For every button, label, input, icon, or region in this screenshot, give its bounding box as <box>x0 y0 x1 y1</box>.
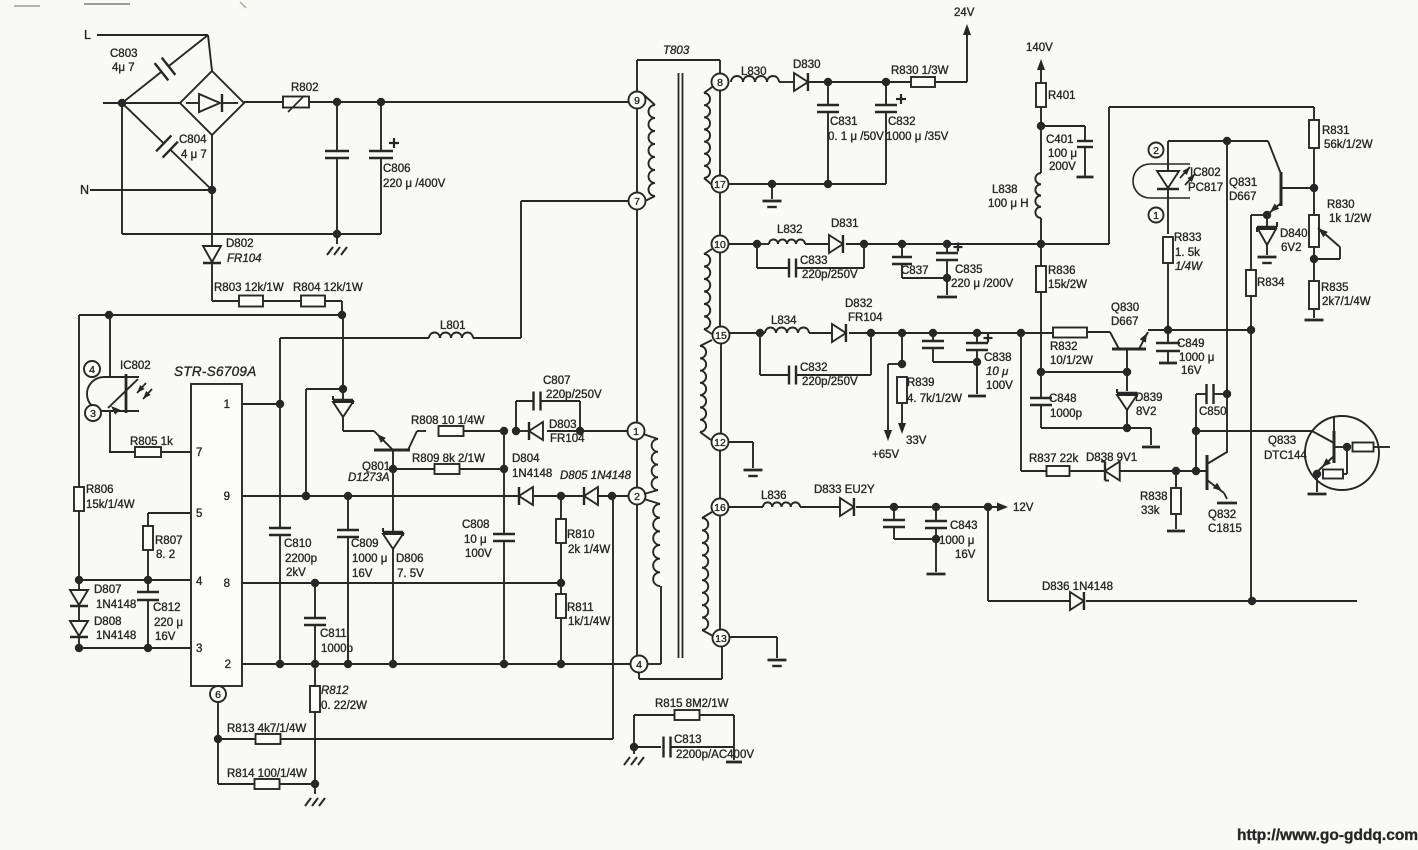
svg-text:4 μ 7: 4 μ 7 <box>181 149 207 161</box>
svg-text:15k/1/4W: 15k/1/4W <box>86 499 135 511</box>
svg-text:C832: C832 <box>888 116 916 128</box>
svg-text:3: 3 <box>196 643 202 655</box>
svg-text:220 μ /400V: 220 μ /400V <box>383 178 446 190</box>
svg-text:9: 9 <box>224 491 230 503</box>
svg-text:2: 2 <box>634 491 640 503</box>
svg-text:D832: D832 <box>845 298 873 310</box>
svg-text:C811: C811 <box>320 628 347 640</box>
svg-text:1/4W: 1/4W <box>1175 261 1203 273</box>
svg-text:R803 12k/1W: R803 12k/1W <box>214 282 284 294</box>
svg-text:2k 1/4W: 2k 1/4W <box>568 544 610 556</box>
svg-text:L830: L830 <box>741 66 767 78</box>
svg-text:R806: R806 <box>86 484 114 496</box>
svg-text:R807: R807 <box>155 535 183 547</box>
svg-text:16: 16 <box>714 502 726 514</box>
svg-text:C837: C837 <box>901 265 929 277</box>
svg-text:FR104: FR104 <box>550 433 585 445</box>
svg-text:R831: R831 <box>1322 125 1350 137</box>
svg-text:8: 8 <box>717 77 723 89</box>
svg-text:R837 22k: R837 22k <box>1029 453 1078 465</box>
svg-text:2200p/AC400V: 2200p/AC400V <box>676 749 754 761</box>
svg-text:C810: C810 <box>284 538 312 550</box>
svg-text:0. 1 μ /50V: 0. 1 μ /50V <box>828 131 884 143</box>
svg-text:R814 100/1/4W: R814 100/1/4W <box>227 768 307 780</box>
svg-text:17: 17 <box>714 179 726 191</box>
svg-text:R839: R839 <box>907 377 935 389</box>
svg-text:1000 μ: 1000 μ <box>939 535 974 547</box>
svg-text:10 μ: 10 μ <box>464 534 487 546</box>
svg-text:33k: 33k <box>1141 505 1160 517</box>
svg-text:C833: C833 <box>800 255 828 267</box>
svg-text:C812: C812 <box>153 602 181 614</box>
svg-text:R813 4k7/1/4W: R813 4k7/1/4W <box>227 723 306 735</box>
svg-text:R838: R838 <box>1140 491 1168 503</box>
svg-text:C843: C843 <box>950 520 978 532</box>
svg-text:100 μ: 100 μ <box>1048 148 1077 160</box>
svg-text:4: 4 <box>89 364 95 376</box>
svg-text:220p/250V: 220p/250V <box>802 269 858 281</box>
svg-text:D833 EU2Y: D833 EU2Y <box>814 484 875 496</box>
svg-text:6V2: 6V2 <box>1281 242 1301 254</box>
svg-text:PC817: PC817 <box>1188 182 1223 194</box>
svg-text:140V: 140V <box>1026 42 1053 54</box>
svg-text:56k/1/2W: 56k/1/2W <box>1324 139 1373 151</box>
svg-text:C849: C849 <box>1177 338 1205 350</box>
svg-text:8V2: 8V2 <box>1136 406 1156 418</box>
svg-text:1000p: 1000p <box>321 643 353 655</box>
svg-text:C808: C808 <box>462 519 490 531</box>
svg-text:R804 12k/1W: R804 12k/1W <box>293 282 363 294</box>
svg-text:R811: R811 <box>567 602 594 614</box>
svg-text:10/1/2W: 10/1/2W <box>1050 355 1093 367</box>
svg-text:1000 μ: 1000 μ <box>352 553 387 565</box>
svg-text:R830 1/3W: R830 1/3W <box>891 65 949 77</box>
svg-text:DTC144: DTC144 <box>1264 450 1307 462</box>
svg-text:C806: C806 <box>383 163 411 175</box>
svg-text:1k/1/4W: 1k/1/4W <box>568 616 610 628</box>
svg-text:R815 8M2/1W: R815 8M2/1W <box>655 698 729 710</box>
svg-text:220p/250V: 220p/250V <box>802 376 858 388</box>
svg-text:1. 5k: 1. 5k <box>1175 247 1200 259</box>
svg-text:C807: C807 <box>543 375 571 387</box>
svg-text:10 μ: 10 μ <box>986 366 1009 378</box>
svg-text:200V: 200V <box>1049 161 1076 173</box>
svg-text:7: 7 <box>196 447 202 459</box>
svg-text:D803: D803 <box>549 419 577 431</box>
svg-text:C838: C838 <box>984 352 1012 364</box>
svg-text:1: 1 <box>224 399 230 411</box>
svg-text:1000 μ /35V: 1000 μ /35V <box>886 131 949 143</box>
svg-text:1N4148: 1N4148 <box>96 599 136 611</box>
svg-text:D830: D830 <box>793 59 821 71</box>
svg-text:R805 1k: R805 1k <box>130 436 173 448</box>
svg-text:R809 8k 2/1W: R809 8k 2/1W <box>412 453 485 465</box>
svg-text:C813: C813 <box>674 734 702 746</box>
svg-text:4. 7k/1/2W: 4. 7k/1/2W <box>907 393 962 405</box>
svg-text:R835: R835 <box>1321 282 1349 294</box>
svg-text:C832: C832 <box>800 362 828 374</box>
svg-text:1000 μ: 1000 μ <box>1179 352 1214 364</box>
svg-text:R836: R836 <box>1048 265 1076 277</box>
svg-text:R834: R834 <box>1257 277 1285 289</box>
svg-text:7: 7 <box>634 196 640 208</box>
svg-text:5: 5 <box>196 508 202 520</box>
svg-text:220p/250V: 220p/250V <box>546 389 602 401</box>
svg-text:2200p: 2200p <box>285 553 317 565</box>
svg-text:C804: C804 <box>179 134 207 146</box>
svg-text:13: 13 <box>715 633 727 645</box>
svg-text:100V: 100V <box>986 380 1013 392</box>
svg-text:220 μ /200V: 220 μ /200V <box>951 278 1014 290</box>
svg-text:C809: C809 <box>351 538 379 550</box>
svg-text:D804: D804 <box>512 453 540 465</box>
svg-text:10: 10 <box>714 239 726 251</box>
svg-text:Q833: Q833 <box>1268 435 1296 447</box>
svg-text:L832: L832 <box>777 224 803 236</box>
svg-text:15: 15 <box>715 330 727 342</box>
svg-text:16V: 16V <box>352 568 373 580</box>
svg-text:7. 5V: 7. 5V <box>397 568 424 580</box>
svg-text:4: 4 <box>196 576 203 588</box>
svg-text:L: L <box>84 28 91 42</box>
svg-text:R802: R802 <box>291 82 319 94</box>
svg-text:C1815: C1815 <box>1208 523 1242 535</box>
svg-text:L838: L838 <box>992 184 1018 196</box>
svg-text:R808 10 1/4W: R808 10 1/4W <box>411 415 485 427</box>
svg-text:D667: D667 <box>1111 316 1139 328</box>
svg-text:D836 1N4148: D836 1N4148 <box>1042 581 1113 593</box>
svg-text:R810: R810 <box>567 529 595 541</box>
svg-text:D807: D807 <box>94 584 122 596</box>
svg-text:L834: L834 <box>771 315 797 327</box>
svg-text:2kV: 2kV <box>286 567 306 579</box>
svg-text:STR-S6709A: STR-S6709A <box>174 364 257 379</box>
svg-text:R830: R830 <box>1327 199 1355 211</box>
svg-text:1: 1 <box>633 426 639 438</box>
svg-text:2: 2 <box>225 659 231 671</box>
svg-text:1N4148: 1N4148 <box>96 630 136 642</box>
svg-text:T803: T803 <box>663 45 690 57</box>
svg-text:C835: C835 <box>955 264 983 276</box>
svg-text:1000p: 1000p <box>1050 408 1082 420</box>
svg-text:http://www.go-gddq.com: http://www.go-gddq.com <box>1237 827 1418 844</box>
svg-text:L801: L801 <box>440 320 466 332</box>
svg-text:FR104: FR104 <box>227 253 262 265</box>
svg-text:33V: 33V <box>906 435 927 447</box>
svg-text:4: 4 <box>636 659 642 671</box>
svg-text:D802: D802 <box>226 238 254 250</box>
svg-text:D808: D808 <box>94 616 122 628</box>
svg-text:Q830: Q830 <box>1111 302 1139 314</box>
svg-text:220 μ: 220 μ <box>154 617 183 629</box>
svg-text:C831: C831 <box>830 116 858 128</box>
svg-text:D831: D831 <box>831 218 859 230</box>
svg-text:+65V: +65V <box>872 449 900 461</box>
svg-text:FR104: FR104 <box>848 312 883 324</box>
svg-text:C803: C803 <box>110 48 138 60</box>
svg-text:100V: 100V <box>465 548 492 560</box>
svg-text:Q832: Q832 <box>1208 509 1236 521</box>
svg-text:2: 2 <box>1153 145 1159 157</box>
svg-text:IC802: IC802 <box>1190 167 1221 179</box>
svg-text:8. 2: 8. 2 <box>156 549 175 561</box>
svg-text:12: 12 <box>714 437 726 449</box>
svg-text:8: 8 <box>224 578 230 590</box>
svg-text:L836: L836 <box>761 490 787 502</box>
svg-text:R812: R812 <box>321 685 349 697</box>
svg-text:R401: R401 <box>1048 90 1076 102</box>
svg-text:D667: D667 <box>1229 191 1257 203</box>
svg-text:0. 22/2W: 0. 22/2W <box>321 700 367 712</box>
svg-text:D838 9V1: D838 9V1 <box>1086 452 1137 464</box>
svg-text:12V: 12V <box>1013 502 1034 514</box>
svg-text:IC802: IC802 <box>120 360 151 372</box>
svg-text:2k7/1/4W: 2k7/1/4W <box>1322 296 1371 308</box>
svg-text:16V: 16V <box>1181 365 1202 377</box>
svg-text:1: 1 <box>1153 210 1159 222</box>
svg-text:1N4148: 1N4148 <box>512 468 552 480</box>
svg-text:D805 1N4148: D805 1N4148 <box>560 470 632 482</box>
svg-text:D1273A: D1273A <box>348 472 390 484</box>
svg-text:3: 3 <box>90 408 96 420</box>
svg-text:C401: C401 <box>1046 134 1074 146</box>
svg-text:16V: 16V <box>955 549 976 561</box>
svg-text:D840: D840 <box>1280 228 1308 240</box>
svg-text:100 μ H: 100 μ H <box>988 198 1029 210</box>
svg-text:Q831: Q831 <box>1229 177 1257 189</box>
svg-text:R832: R832 <box>1050 341 1078 353</box>
svg-text:6: 6 <box>215 689 221 701</box>
svg-text:24V: 24V <box>954 7 975 19</box>
svg-text:C850: C850 <box>1199 406 1227 418</box>
svg-text:1k 1/2W: 1k 1/2W <box>1329 213 1371 225</box>
svg-text:15k/2W: 15k/2W <box>1048 279 1087 291</box>
svg-text:R833: R833 <box>1174 232 1202 244</box>
svg-text:C848: C848 <box>1049 393 1077 405</box>
svg-text:16V: 16V <box>155 631 176 643</box>
svg-text:9: 9 <box>634 95 640 107</box>
svg-text:4μ 7: 4μ 7 <box>112 62 135 74</box>
svg-text:N: N <box>80 183 89 197</box>
svg-text:D806: D806 <box>396 553 424 565</box>
svg-text:D839: D839 <box>1135 392 1163 404</box>
